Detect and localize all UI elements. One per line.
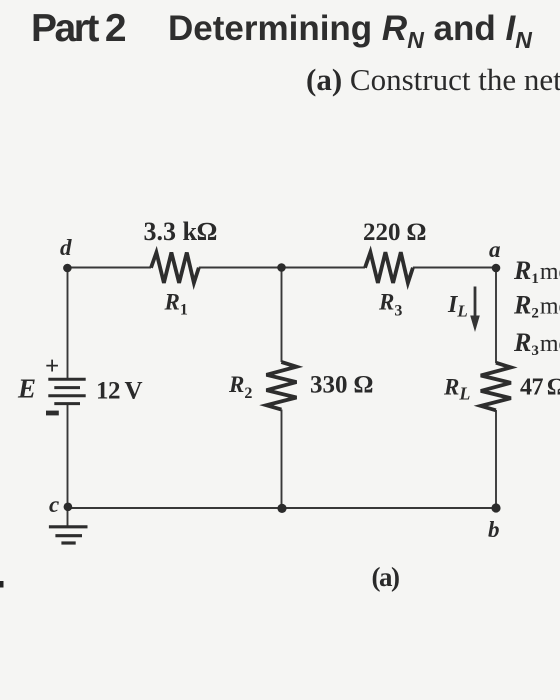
sub heading: (a) Construct the network	[306, 62, 560, 98]
wire: right rail node a to RL	[495, 268, 497, 364]
svg-text:a: a	[489, 237, 501, 262]
heading: Part 2	[31, 7, 127, 51]
svg-text:c: c	[49, 492, 59, 517]
svg-text:(a): (a)	[372, 562, 399, 592]
svg-text:R1: R1	[164, 290, 188, 319]
left edge printed mark	[0, 581, 4, 588]
svg-text:R3: R3	[378, 290, 402, 320]
wire: left rail node d to battery	[67, 268, 69, 380]
junction dot top middle	[277, 263, 286, 272]
svg-text:47 Ω: 47 Ω	[520, 375, 560, 401]
resistor R1 zigzag	[151, 253, 199, 283]
wire: top, d to R1	[68, 267, 152, 269]
resistor R2 zigzag	[266, 362, 296, 410]
resistor RL zigzag	[481, 363, 511, 411]
svg-text:12 V: 12 V	[96, 378, 143, 405]
current arrow IL	[470, 287, 480, 333]
wire: bottom, c to b	[68, 507, 497, 509]
battery E plates	[48, 379, 85, 403]
node a dot	[492, 264, 501, 273]
svg-text:RL: RL	[443, 375, 470, 404]
node b dot	[491, 503, 500, 512]
svg-text:+: +	[45, 353, 59, 380]
wire: RL to node b	[495, 410, 497, 508]
wire: middle rail top junction to R2	[281, 268, 283, 363]
svg-text:d: d	[60, 235, 72, 260]
svg-text:330 Ω: 330 Ω	[310, 371, 373, 398]
wire: R1 to R3	[199, 267, 365, 269]
wire: battery to node c	[67, 404, 69, 508]
wire: R3 to node a	[413, 267, 496, 269]
svg-text:220 Ω: 220 Ω	[363, 219, 426, 246]
svg-text:R3me: R3me	[513, 328, 560, 359]
battery minus sign	[46, 411, 59, 416]
svg-text:3.3 kΩ: 3.3 kΩ	[144, 217, 217, 246]
heading: Determining RN and IN	[168, 9, 532, 54]
wire: R2 to bottom junction	[281, 410, 283, 509]
svg-text:R2me: R2me	[513, 291, 560, 322]
ground symbol at node c	[49, 527, 88, 543]
junction dot bottom middle	[277, 504, 286, 513]
svg-text:E: E	[17, 374, 36, 404]
svg-text:b: b	[488, 517, 500, 542]
node c dot	[64, 503, 73, 512]
node d dot	[63, 264, 72, 273]
svg-text:R1me: R1me	[513, 256, 560, 287]
svg-text:R2: R2	[228, 372, 252, 402]
svg-text:IL: IL	[447, 292, 468, 321]
resistor R3 zigzag	[365, 252, 413, 283]
wire: ground stub below node c	[67, 508, 69, 527]
